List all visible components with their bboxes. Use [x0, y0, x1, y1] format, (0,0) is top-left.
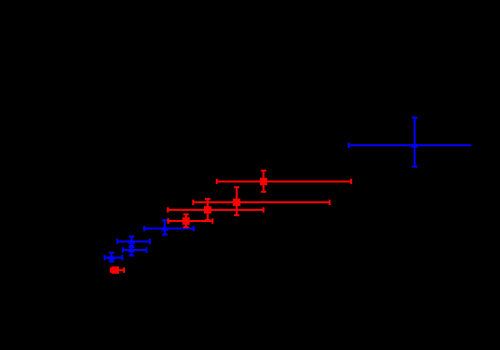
data point R2 (red square with error bars) [168, 214, 212, 227]
data point R4 (red square with error bars) [193, 187, 329, 215]
data point B1 (blue triangle with error bars) [105, 253, 123, 262]
data point R3 (red square with error bars) [168, 199, 264, 220]
data point R5 (red square with error bars) [217, 171, 352, 192]
data point B3 (blue triangle with error bars) [117, 237, 150, 248]
data point B4 (blue triangle with error bars) [144, 220, 194, 234]
data point B2 (blue triangle with error bars) [123, 246, 147, 256]
data point R1 (red square with error bars) [111, 266, 124, 273]
data point B5 (blue triangle with error bars) [349, 118, 472, 167]
